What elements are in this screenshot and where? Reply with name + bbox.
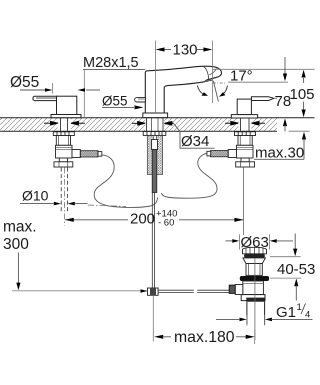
rod end reference line [12,290,147,292]
svg-text:1: 1 [297,302,302,313]
svg-text:130: 130 [173,42,198,59]
dimension max.30 [254,132,306,162]
right valve lever handle [251,97,274,101]
130 extension through spout [155,55,157,113]
right valve hose connector nut [228,150,236,158]
right valve braided hose stub [211,151,229,157]
17 degree right arc arrow [223,86,228,95]
center dark supply tube [152,150,157,193]
svg-text:105: 105 [290,86,315,103]
waste lower body [243,281,264,295]
left valve hose connector nut [72,150,80,158]
left valve locknut below deck [53,132,74,136]
dimension Ø55 left arrow [20,83,53,94]
left valve body above deck [57,96,77,114]
17 degree dash-dot [213,82,225,84]
svg-text:300: 300 [3,236,29,253]
svg-text:- 60: - 60 [158,217,174,228]
waste upper cylinder [246,264,262,276]
right valve escutcheon [231,115,257,118]
waste taper section [243,258,266,264]
dimension 78 [275,57,292,132]
svg-text:40-53: 40-53 [277,261,315,278]
left valve bottom hex nut [54,162,73,167]
right hose curve [162,153,218,198]
spout body [145,66,221,113]
right valve locknut below deck [235,132,256,136]
right valve elbow body [237,145,254,158]
17 degree vertical line [212,55,214,103]
right valve body above deck [237,99,251,115]
left valve elbow body [56,145,73,158]
svg-text:G1: G1 [276,304,296,321]
left valve lever handle [33,96,57,100]
dimension 105 [290,70,315,117]
right valve shank through deck [241,118,250,131]
waste rubber seal [240,276,269,281]
center mounting nut below deck [143,132,166,136]
dimension Ø63 [226,234,294,251]
left valve escutcheon [51,115,81,118]
spout escutcheon [143,113,168,118]
M28 leader underline and arrow [78,69,146,117]
deck hatched band [0,118,277,131]
left valve braided hose stub [80,151,98,157]
dimension 130 [156,41,213,59]
left valve body below deck [56,136,70,146]
svg-text:Ø34: Ø34 [181,133,209,150]
svg-text:Ø55: Ø55 [10,74,39,91]
svg-text:M28x1,5: M28x1,5 [83,55,139,71]
17 degree left arc arrow [197,86,203,95]
dimension 40-53 [270,234,315,301]
horizontal pop-up rod [158,290,229,292]
left valve dashed supply pipe Ø10 [61,168,67,214]
dimension G1 1/4 [216,302,313,321]
waste centerline [254,258,256,340]
right valve bottom hex nut [236,162,255,167]
outlet reference line [228,81,288,83]
left hose curve [94,155,157,208]
svg-text:4: 4 [305,309,310,320]
dimension 200 +140 -60 [65,208,244,228]
right valve neck [241,158,249,162]
Ø55 spout leader [102,105,143,109]
deck hole arrows left valve [44,121,85,125]
pop-up rod knob behind spout [135,98,146,102]
svg-text:max.30: max.30 [255,144,304,161]
waste tailpipe [247,302,265,325]
dimension Ø10 [20,188,88,206]
deck bottom reference extension [289,130,310,132]
rod lower extension [152,295,154,341]
deck bottom edge line [0,130,277,132]
deck top edge line [0,117,315,119]
dimension max. 300 [3,219,37,291]
right valve centerline extension [243,168,245,236]
hose low point dash-dot [88,205,126,207]
waste rod knob [229,285,235,293]
17 degree stream line [213,81,218,102]
deck hole arrows center [132,122,174,126]
left valve centerline [64,168,66,226]
right valve body below deck [238,136,252,146]
vertical pull rod [152,193,154,289]
svg-text:max.: max. [3,219,37,236]
svg-text:max.180: max.180 [174,329,235,346]
svg-text:Ø55: Ø55 [102,94,128,109]
waste valve plug cap [243,247,267,254]
svg-text:Ø63: Ø63 [241,234,269,251]
spout top reference line [213,68,315,70]
spout aerator lines [207,77,217,79]
left hose end cap [98,152,102,157]
rod joint block [148,288,159,295]
center shank through deck [147,118,164,131]
left valve neck [59,158,67,162]
left valve shank through deck [61,118,68,131]
center cartridge window [152,140,158,150]
center threaded shank strips [147,135,153,174]
deck hole arrows right valve [225,121,265,125]
G1 extension stubs [246,315,248,326]
spout inner tip detail [204,66,209,79]
svg-text:200: 200 [130,210,155,227]
right hose end cap [207,151,211,156]
dimension Ø34 leader [174,123,215,148]
waste bottom nut [241,295,265,301]
dimension max.180 [154,329,255,346]
svg-text:Ø10: Ø10 [22,188,49,204]
waste side port [235,285,243,295]
waste plug dark disc [244,254,265,258]
lever tip reference [274,97,277,99]
